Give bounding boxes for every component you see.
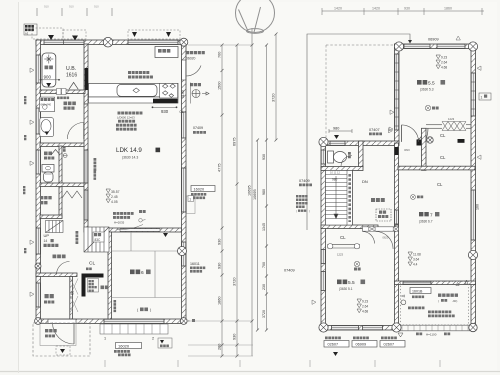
svg-text:700: 700 [218, 52, 222, 58]
winder steps [46, 221, 64, 233]
svg-text:910: 910 [94, 5, 99, 9]
bottom window code box [380, 341, 405, 348]
pipe note vertical [63, 146, 66, 152]
porch step2 [56, 346, 70, 355]
north symbol [236, 0, 275, 33]
pillar top-right 1F [180, 38, 188, 46]
stove burners [160, 83, 178, 98]
svg-text:(3630 5.3: (3630 5.3 [420, 88, 434, 92]
svg-text:2.64: 2.64 [362, 305, 368, 309]
bottom tick [104, 360, 106, 367]
kanji text [89, 283, 94, 285]
kanso label [45, 66, 53, 70]
win 07409 note [193, 131, 206, 134]
vanity [40, 118, 54, 137]
wall joint X left [369, 227, 375, 231]
svg-text:83C: 83C [95, 238, 102, 242]
win 16011 note [190, 266, 205, 269]
svg-text:1616: 1616 [66, 73, 77, 79]
wall toilet bottom [40, 183, 85, 187]
svg-text:2: 2 [152, 337, 154, 341]
window above toilet [330, 141, 345, 145]
eave marker [72, 36, 78, 41]
staircase 1F [84, 227, 109, 252]
svg-text:930: 930 [233, 334, 237, 340]
balcony rail [399, 325, 476, 331]
grid tick [111, 8, 113, 16]
staircase 2F [326, 171, 353, 226]
sliding door pocket [120, 229, 160, 231]
kitchen spec line3 [118, 120, 135, 123]
2F pillar top-left [394, 42, 403, 51]
svg-text:1860: 1860 [218, 297, 222, 305]
sliding door note1 [113, 212, 134, 215]
svg-text:1601B: 1601B [412, 289, 423, 293]
2F outer wall left-lower [321, 140, 326, 330]
svg-text:1: 1 [189, 197, 191, 201]
shower note small [57, 97, 69, 100]
grid tick [36, 8, 38, 16]
closet hanger pipe lower [327, 243, 360, 245]
2F wall mid horizontal [321, 141, 399, 146]
win 16011 note2 [190, 270, 202, 273]
svg-text:9.23: 9.23 [441, 56, 447, 60]
eave outline dashed 2 [63, 30, 86, 39]
tenjou [379, 211, 386, 214]
svg-text:3720: 3720 [272, 94, 276, 102]
2F left note3 [296, 202, 308, 205]
opening marker left [30, 240, 34, 244]
kanji text [484, 94, 487, 97]
toilet 2F door swing [341, 156, 352, 167]
svg-text:280: 280 [218, 344, 222, 350]
svg-text:H=2035: H=2035 [114, 221, 125, 225]
wall bedroom55/bedroom7 [395, 226, 399, 330]
powder door swing [67, 123, 84, 140]
bedroom55l label [337, 279, 347, 284]
svg-text:4.68: 4.68 [362, 310, 368, 314]
svg-text:07409: 07409 [284, 269, 295, 273]
svg-text:700: 700 [262, 262, 266, 268]
first floor outline reference [307, 34, 410, 230]
svg-text:1190: 1190 [181, 90, 185, 98]
note text2 [25, 28, 34, 31]
balcony win note [412, 295, 424, 298]
2F pillar door [427, 137, 433, 143]
closet strip left wall [422, 128, 427, 170]
2F left note4 [296, 206, 305, 209]
bottom tick [239, 360, 241, 367]
svg-text:4.4: 4.4 [413, 263, 418, 267]
washer pan label [41, 98, 55, 101]
storage label line1 [40, 196, 52, 199]
closet divider dark [458, 139, 465, 143]
tatami line h2 [112, 297, 182, 299]
marker left lower [312, 300, 316, 304]
window right LDK 16020 [182, 168, 186, 212]
svg-text:02607: 02607 [384, 343, 395, 347]
svg-text:): ) [309, 209, 310, 213]
bottom win note [381, 337, 397, 340]
entry label [45, 294, 54, 298]
2F top dim line [322, 10, 484, 12]
balcony window 1601B [403, 281, 431, 284]
svg-text:0820: 0820 [404, 148, 410, 152]
jo char w [146, 269, 151, 274]
engawa sliding window bottom [104, 319, 164, 323]
2F dim upper [275, 34, 277, 140]
outer wall bottom [36, 319, 186, 324]
balcony marker left [401, 295, 404, 297]
closet note [86, 267, 92, 270]
FRP note2 [428, 314, 455, 317]
bottom tick [177, 360, 179, 367]
storage door fold [62, 191, 82, 198]
wall entry closet [70, 277, 73, 320]
2F window left bedroom b [321, 272, 325, 291]
svg-text:(3630 14.3: (3630 14.3 [122, 156, 138, 160]
svg-text:980: 980 [333, 127, 339, 131]
FRP note1 [428, 310, 451, 313]
2F window left toilet [321, 150, 325, 164]
2F window bottom a [332, 326, 359, 330]
window left toilet [36, 150, 40, 174]
kanji text [361, 279, 366, 284]
sliding door path [117, 225, 144, 230]
wall toilet bottom [321, 167, 363, 171]
svg-text:02607: 02607 [328, 343, 339, 347]
entry door swing [53, 323, 75, 345]
grid tick [61, 8, 63, 16]
svg-text:1345: 1345 [262, 223, 266, 231]
svg-text:1860: 1860 [444, 7, 452, 11]
svg-text:3720: 3720 [262, 310, 266, 318]
niche note [94, 158, 97, 171]
bottom marker triangles [333, 352, 338, 356]
UB door hardware [57, 89, 62, 95]
dim 980 line [329, 130, 352, 132]
svg-text:3.64: 3.64 [413, 258, 419, 262]
dim line inner [221, 45, 223, 356]
2F outer wall right [471, 44, 476, 330]
window right kitchen 07409 [182, 112, 186, 138]
svg-text:LDK 14.9: LDK 14.9 [116, 147, 142, 154]
svg-text:CL: CL [437, 182, 443, 187]
2F pillar mid-left [319, 137, 328, 146]
strip dark [395, 147, 399, 155]
kitchen spec line5 [116, 128, 137, 131]
opening marker left [30, 120, 34, 124]
dim line mid [236, 45, 238, 356]
opening marker left [30, 68, 34, 72]
wall stub dark post [417, 140, 422, 146]
2F window right upper [471, 73, 475, 116]
wall joint X right [393, 227, 398, 231]
pantry label [158, 49, 170, 53]
svg-text:0620: 0620 [383, 236, 389, 240]
ceiling symbol upper [425, 105, 431, 111]
svg-text:A3: A3 [25, 32, 29, 36]
powder room label [64, 102, 76, 106]
entry opening [48, 319, 76, 323]
toilet room label [44, 152, 52, 156]
veranda hatch [100, 324, 168, 334]
2F long window left-upper [395, 54, 399, 130]
bedroom55u label [417, 80, 427, 85]
area marks upper [436, 55, 440, 69]
svg-text:07407: 07407 [369, 128, 380, 132]
svg-text:640×640: 640×640 [41, 102, 52, 106]
window top UB [44, 40, 84, 44]
bedroom7 label [419, 212, 429, 216]
oshiire note box [88, 279, 99, 293]
ext line [188, 344, 253, 346]
ref box 1 [188, 196, 194, 202]
tenkenkou [378, 215, 388, 218]
svg-text:1: 1 [481, 95, 483, 99]
svg-text:DN: DN [362, 179, 368, 184]
pillar bottom-left [35, 318, 42, 325]
left note d [24, 248, 26, 253]
okabe label [140, 307, 148, 311]
svg-text:U.B.: U.B. [66, 66, 76, 72]
door swing bedroom55 upper [402, 125, 419, 142]
window label 16020 right [191, 186, 215, 192]
balcony wall marker [465, 280, 468, 284]
bottom tick [439, 360, 441, 367]
toilet 2F tank [328, 151, 334, 163]
kanji text [89, 290, 94, 292]
wall hall/bedroom55 [321, 225, 378, 229]
svg-text:4.68: 4.68 [441, 66, 447, 70]
2F pillar right-mid [468, 250, 477, 259]
svg-text:930: 930 [218, 239, 222, 245]
svg-text:5.5: 5.5 [348, 280, 355, 286]
balcony label [438, 294, 458, 297]
pillar bottom-right [180, 318, 187, 325]
win note r2 [193, 197, 205, 200]
bottom window code box [352, 341, 377, 348]
svg-text:910: 910 [69, 5, 74, 9]
hall label [53, 254, 66, 258]
2F left note2 [296, 199, 308, 202]
window top kitchen [128, 40, 178, 44]
2F left note1 [296, 195, 308, 198]
page bottom scan edge [0, 371, 500, 373]
washer pan [40, 97, 55, 112]
closet front right stub [466, 125, 471, 129]
note [160, 344, 169, 347]
toilet 2F bowl [334, 152, 347, 163]
shower note line1 [128, 71, 149, 74]
svg-text:CL: CL [440, 133, 446, 138]
UB folding door [69, 82, 78, 89]
kanji text [441, 80, 446, 85]
svg-text:930: 930 [404, 7, 410, 11]
svg-text:UP: UP [44, 233, 50, 238]
outer wall top [36, 40, 186, 45]
hall 2F label [371, 198, 385, 202]
powder door leaf [83, 123, 85, 140]
svg-text:16020: 16020 [194, 187, 205, 191]
rounded closet corner wall [422, 128, 429, 143]
wall corridor left [59, 146, 62, 218]
stair center rail marks [348, 174, 351, 222]
wall LDK/washitsu [84, 228, 182, 232]
grid tick [86, 8, 88, 16]
2F outer wall left-upper [395, 44, 400, 143]
win 07407 note [369, 132, 382, 135]
toilet 2F label [348, 152, 351, 158]
2F outer wall top [395, 44, 476, 49]
2F pillar top-right [468, 42, 477, 51]
wall powder bottom [40, 143, 85, 147]
left note b [24, 135, 26, 140]
svg-text:2.45: 2.45 [111, 195, 118, 199]
porch floor label [45, 334, 55, 337]
wall hall/bedroom7 upper [395, 143, 399, 226]
bottom tick [309, 360, 311, 367]
bathtub [42, 53, 56, 87]
svg-text:1: 1 [104, 337, 106, 341]
wall storage bottom [40, 215, 62, 219]
dim line outer [251, 28, 253, 356]
wall bedroom7/balcony [395, 281, 476, 285]
window ref box [187, 196, 196, 214]
porch dashed outline [33, 323, 90, 356]
svg-text:-90): -90) [452, 299, 457, 303]
window mullion [63, 40, 65, 44]
area marks [106, 189, 110, 203]
pillar right washitsu [178, 247, 187, 256]
svg-text:1223: 1223 [448, 117, 455, 121]
kitchen spec line4 [116, 124, 137, 127]
tub sparkle symbol [44, 55, 53, 64]
2F window left bedroom [321, 250, 325, 264]
svg-text:5.5: 5.5 [428, 81, 435, 87]
closet solid wall [83, 274, 104, 278]
win note r1 [191, 193, 206, 196]
svg-text:1500: 1500 [218, 82, 222, 90]
door swing b55 west [363, 232, 375, 244]
jo char [156, 148, 161, 153]
shower note line2 [128, 76, 153, 79]
niche note2 [94, 171, 97, 180]
2F pillar bottom-left [319, 323, 328, 332]
bottom tick [374, 360, 376, 367]
tatami line v1 [130, 232, 132, 251]
2F dim inner [266, 45, 268, 330]
eave outline dashed [32, 28, 63, 39]
outer wall right [182, 40, 187, 324]
kanji text [89, 280, 94, 282]
svg-text:7: 7 [430, 213, 433, 218]
window label 16020 bottom [116, 343, 142, 349]
svg-text:06020: 06020 [186, 57, 196, 61]
back door opening [182, 60, 186, 80]
tokonoma marker [163, 233, 168, 237]
2F window top b [437, 44, 465, 48]
window left powder [36, 108, 40, 134]
svg-text:(: ( [296, 209, 297, 213]
floor finish label [64, 106, 75, 109]
svg-text:07409: 07409 [193, 126, 203, 130]
kanji text [417, 195, 423, 198]
2F pillar bottom-mid [392, 323, 401, 332]
landing text [94, 233, 101, 236]
UB solid wall [85, 68, 88, 90]
toilet floor label [44, 157, 54, 160]
marker left mid [390, 110, 394, 114]
small circle mark [139, 219, 146, 223]
vent fan label [190, 83, 201, 86]
win label note2 [118, 354, 131, 357]
marker top [456, 36, 460, 40]
2F window right bedroom7 [471, 190, 475, 240]
tesuri note [416, 332, 422, 335]
svg-text:4775: 4775 [218, 164, 222, 172]
2F dim outer [257, 140, 259, 330]
area marks b7 [408, 252, 412, 266]
wall hall/LDK [84, 104, 88, 228]
small note right [158, 338, 172, 348]
2F pillar balcony corner [469, 323, 477, 331]
door swing b55 east [376, 232, 394, 250]
svg-text:230: 230 [262, 284, 266, 290]
ext line [188, 44, 253, 46]
pillar entry [35, 263, 41, 269]
svg-text:2.64: 2.64 [441, 61, 447, 65]
kyotsu note [139, 210, 146, 213]
svg-text:4.05: 4.05 [111, 200, 118, 204]
ceiling note upper [432, 107, 439, 110]
svg-text:CL: CL [440, 155, 446, 160]
bottom window code box [324, 341, 349, 348]
svg-text:930: 930 [218, 263, 222, 269]
svg-text:910: 910 [44, 5, 49, 9]
balcony window label [410, 288, 431, 294]
dim 1190 line [190, 83, 192, 104]
kitchen counter [89, 83, 179, 97]
2F outer wall bottom [321, 326, 399, 331]
wall CL strip / bedroom7 [398, 166, 475, 170]
entry floor label [44, 301, 54, 304]
pillar top center-left [103, 37, 113, 47]
svg-text:11.68: 11.68 [413, 253, 421, 257]
counter front band [89, 97, 179, 103]
toilet folding door [51, 150, 59, 155]
door leaf upper [401, 125, 403, 142]
kanji text [89, 286, 97, 288]
stair side note [76, 231, 79, 244]
opening hall/LDK b [84, 190, 88, 220]
entry door leaf [73, 323, 75, 345]
eave marker [48, 35, 54, 40]
oshiire solid wall [82, 274, 86, 297]
svg-text:980: 980 [262, 189, 266, 195]
svg-text:6: 6 [141, 270, 144, 276]
ext line [188, 320, 253, 322]
pipe symbol [63, 154, 67, 158]
svg-text:06909: 06909 [356, 343, 367, 347]
kanji text [298, 209, 306, 211]
kitchen spec line1 [118, 112, 143, 115]
bottom win note [325, 337, 341, 340]
svg-text:160: 160 [476, 204, 480, 210]
ext line [188, 355, 253, 357]
kanji text [354, 268, 361, 271]
opening marker left [30, 292, 34, 296]
